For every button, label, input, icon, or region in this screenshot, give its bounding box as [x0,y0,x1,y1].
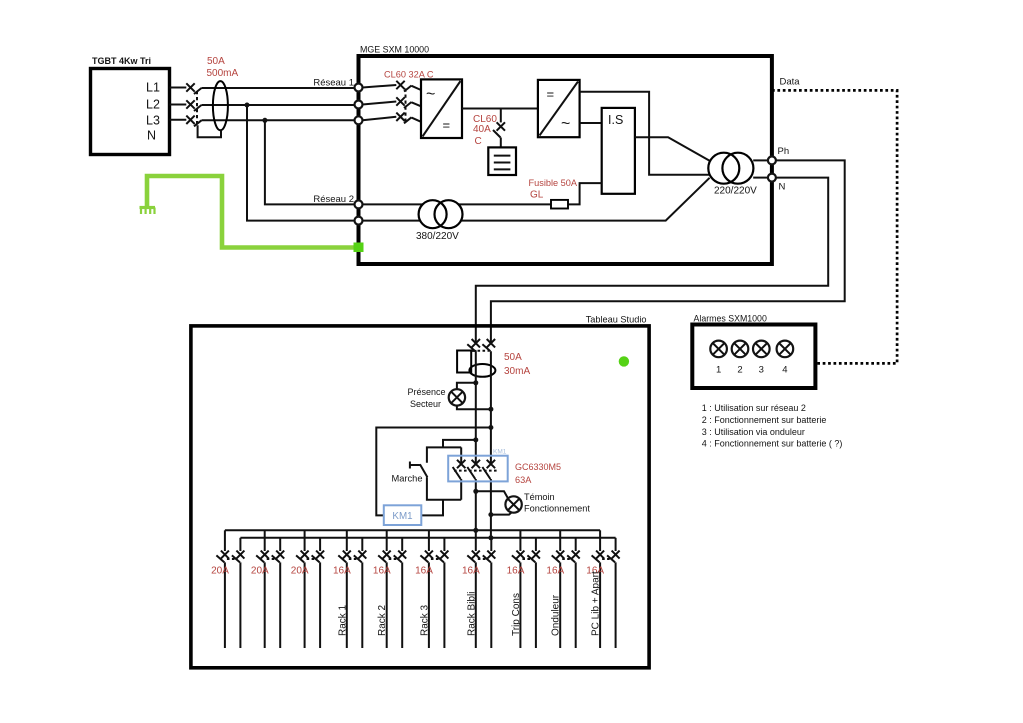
wires Reseau1 terminals to CL60 32A breaker [363,85,397,120]
node right wire lower bus [488,535,493,540]
alarm lamp 4 [777,341,794,376]
wire L1 breaker to Reseau 1 [202,87,355,89]
upper distribution bus [225,529,600,531]
branch breaker 1 (20A) [216,530,244,648]
branch breaker 3 (20A) [296,530,324,648]
svg-text:40A: 40A [473,124,491,135]
rectifier AC/DC converter [421,79,462,138]
right main wire (neutral) [490,351,492,538]
I.S static switch box [602,108,635,194]
Reseau 2 terminals [355,200,363,224]
circuit breaker CL60 40A C [493,122,505,137]
svg-text:30mA: 30mA [504,366,530,377]
svg-text:Témoin: Témoin [524,492,555,502]
wire L1 TGBT to breaker [170,87,187,89]
fuse Fusible 50A GL [551,200,568,209]
svg-text:220/220V: 220/220V [714,186,757,197]
svg-text:Onduleur: Onduleur [551,594,562,636]
wire loop bottom to KM1 coil [421,500,443,516]
svg-text:Trip Cons: Trip Cons [511,593,522,636]
green junction square at MGE box [354,243,364,253]
wire L3 breaker to Reseau 1 [202,119,355,121]
wire DC bus down to battery breaker [500,109,502,123]
svg-text:C: C [475,136,482,147]
transformer 220/220V [708,153,757,197]
svg-text:Ph: Ph [778,146,790,157]
branch breaker 4 (16A) [338,530,366,648]
wire transformer to Ph terminal [753,159,768,161]
lamp Presence Secteur [449,389,465,405]
differential relay block [457,351,476,373]
wire L2 TGBT to breaker [170,104,187,106]
wire I.S output to transformer [635,137,710,161]
TGBT distribution board box [91,56,170,155]
svg-text:3: 3 [759,365,764,376]
svg-text:=: = [443,118,451,133]
svg-text:~: ~ [426,86,435,103]
svg-text:Rack Bibli: Rack Bibli [466,592,477,636]
lamp Temoin Fonctionnement [505,496,521,512]
MGE SXM 10000 UPS enclosure [359,45,772,265]
label CL60 40A C [473,114,497,147]
marche/selfhold loop rectangle [427,447,461,499]
wire to temoin lamp [476,491,508,498]
wires breaker to rectifier [412,86,422,122]
svg-text:Fusible 50A: Fusible 50A [529,178,578,188]
svg-text:20A: 20A [251,566,269,577]
differential toroid ellipse [469,364,495,377]
wire N to tableau (inner loop) [476,178,828,344]
wire inverter to I.S [580,122,602,124]
wire L3 TGBT to breaker [170,119,187,121]
svg-text:~: ~ [561,116,570,133]
svg-text:KM1: KM1 [493,449,507,456]
node on L2 wire [245,103,250,108]
svg-text:1: 1 [716,365,721,376]
node on L3 wire [262,118,267,123]
svg-text:TGBT 4Kw Tri: TGBT 4Kw Tri [92,56,151,66]
wire L2 down to Reseau 2 lower [247,105,355,221]
wire rectifier to inverter (DC bus) [462,108,538,110]
svg-text:CL60 32A C: CL60 32A C [384,70,434,80]
svg-text:KM1: KM1 [392,511,412,522]
circuit breaker CL60 32A C (3 poles) [396,81,411,124]
node left wire to presence lamp [473,380,478,385]
wire inverter bypass to transformer [580,92,710,175]
svg-text:20A: 20A [291,566,309,577]
label 50A 500mA [207,56,239,79]
svg-text:Fonctionnement: Fonctionnement [524,504,590,514]
alarm lamp 3 [753,341,770,376]
alarm legend text [702,403,843,449]
branch breaker 8 (16A) [512,530,540,648]
wire left wire to marche branch [443,440,476,448]
svg-text:Présence: Présence [407,387,445,397]
svg-text:16A: 16A [373,566,391,577]
transformer 380/220V [416,200,463,242]
branch breaker 10 (16A) [592,530,620,648]
battery [488,147,516,175]
node right wire presence lamp [488,407,493,412]
label Presence Secteur [407,387,445,409]
wire temoin lamp to right wire [491,513,512,515]
wire Ph to tableau (outer loop) [491,160,845,343]
wire L2 breaker to Reseau 1 [202,104,355,106]
svg-text:3 : Utilisation via onduleur: 3 : Utilisation via onduleur [702,427,805,437]
TGBT phase labels L1 L2 L3 N [146,81,160,143]
branch breaker 7 (16A) [467,530,495,648]
svg-text:2: 2 [737,365,742,376]
svg-text:N: N [779,182,786,193]
Tableau Studio enclosure [191,315,649,668]
lower distribution bus [240,537,615,539]
wire L3 down to Reseau 2 upper [265,120,355,204]
KM1 coil box [384,505,422,525]
node left wire temoin [473,489,478,494]
inverter DC/AC converter [538,80,580,137]
protective earth wire (green) [147,176,355,248]
svg-text:GC6330M5: GC6330M5 [515,462,561,472]
svg-text:Réseau 2: Réseau 2 [313,194,354,205]
differential toroid CT [198,81,228,137]
svg-text:Tableau Studio: Tableau Studio [586,315,647,325]
contactor contacts (3 poles) [453,460,497,479]
svg-text:4: 4 [782,365,787,376]
svg-text:MGE SXM 10000: MGE SXM 10000 [360,45,429,55]
Ph terminal [768,156,776,164]
svg-text:380/220V: 380/220V [416,231,459,242]
svg-text:50A: 50A [504,352,522,363]
wire transformer to N terminal [753,177,768,179]
node left wire upper bus [473,528,478,533]
branch breaker 9 (16A) [552,530,580,648]
ground symbol [140,208,156,215]
svg-text:16A: 16A [415,566,433,577]
Reseau 1 terminals [355,84,363,125]
svg-text:L3: L3 [146,114,160,128]
svg-text:Rack 1: Rack 1 [337,604,348,636]
wire presence lamp to right wire [457,406,491,410]
label Temoin Fonctionnement [524,492,590,514]
left main wire (phase) [475,351,477,530]
alarm lamp 1 [710,341,727,376]
svg-text:Data: Data [780,77,801,88]
svg-text:4 : Fonctionnement sur batteri: 4 : Fonctionnement sur batterie ( ?) [702,439,843,449]
svg-text:=: = [547,87,555,102]
svg-text:20A: 20A [211,566,229,577]
wire control left rail to KM1 coil [376,428,491,516]
svg-text:1 : Utilisation sur réseau 2: 1 : Utilisation sur réseau 2 [702,403,806,413]
svg-text:63A: 63A [515,475,532,485]
svg-text:Marche: Marche [392,474,423,484]
label Fusible 50A GL [529,178,578,201]
label GC6330M5 63A [515,462,561,485]
svg-text:2 : Fonctionnement sur batteri: 2 : Fonctionnement sur batterie [702,415,827,425]
svg-text:16A: 16A [507,566,525,577]
svg-text:Réseau 1: Réseau 1 [313,78,354,89]
node right wire control branch [488,425,493,430]
circuit breaker 50A 500mA (3 poles, ganged) [186,83,201,126]
selfhold branch wire [460,447,462,499]
svg-text:Rack 2: Rack 2 [377,604,388,636]
label 50A 30mA [504,352,530,377]
wire breaker to battery [500,138,502,148]
svg-text:GL: GL [530,190,544,201]
svg-text:L2: L2 [146,98,160,112]
svg-text:500mA: 500mA [207,68,239,79]
svg-text:PC Lib + Apart: PC Lib + Apart [591,571,602,636]
svg-text:I.S: I.S [608,113,623,127]
main differential breaker 50A 30mA (2 poles) [467,339,495,351]
svg-text:16A: 16A [462,566,480,577]
wire Reseau 2 upper with fuse to I.S [363,183,602,204]
svg-text:16A: 16A [546,566,564,577]
contactor KM1 power contacts box (blue) [448,456,508,482]
branch breaker 5 (16A) [378,530,406,648]
Alarmes SXM1000 box [692,314,815,389]
green indicator dot [619,356,629,366]
branch breaker 6 (16A) [420,530,448,648]
svg-text:50A: 50A [207,56,225,67]
svg-text:N: N [147,129,156,143]
node left wire control branch [473,437,478,442]
N terminal [768,174,776,182]
svg-text:Rack 3: Rack 3 [419,604,430,636]
node right wire temoin [488,512,493,517]
alarm lamp 2 [732,341,749,376]
wire Reseau 2 lower to transformer [363,178,710,221]
branch breaker 2 (20A) [256,530,284,648]
dashed data link [772,90,897,363]
svg-text:L1: L1 [146,81,160,95]
svg-text:Alarmes SXM1000: Alarmes SXM1000 [694,314,767,324]
wire to presence lamp [457,383,476,390]
push button Marche [410,462,428,478]
svg-text:Secteur: Secteur [410,399,441,409]
svg-text:16A: 16A [333,566,351,577]
